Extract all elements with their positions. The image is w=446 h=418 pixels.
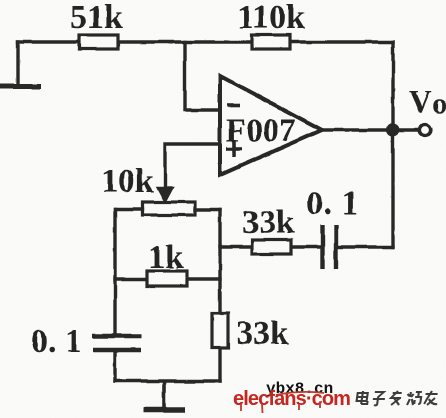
resistor R5 33k (vertical) [212, 313, 289, 352]
logo drip marks [241, 392, 324, 413]
resistor R1 51k [70, 0, 123, 49]
wire left rail lower [113, 351, 116, 381]
potentiometer RP 10k [101, 163, 195, 215]
wire pot right [195, 208, 220, 211]
wire pot left [115, 207, 143, 210]
wire 33k row [220, 245, 321, 248]
capacitor C1 0.1 (series) [306, 185, 359, 269]
op-amp U1 F007 [220, 76, 322, 175]
ground G2 [143, 381, 185, 410]
wire top horizontal [18, 40, 393, 43]
wire right rail mid [218, 210, 221, 313]
wire inverting input [185, 42, 219, 110]
wire right rail [391, 42, 394, 247]
wire right rail low [218, 348, 221, 381]
capacitor C2 0.1 (shunt) [31, 323, 141, 360]
wire cap to rail [337, 245, 393, 248]
wire output [322, 128, 419, 131]
node output junction [387, 124, 400, 137]
watermark chinese 电子发烧友 [356, 391, 439, 405]
resistor R3 33k (series) [242, 204, 295, 254]
wire 1k row [115, 277, 220, 280]
wire noninverting input [165, 144, 219, 188]
resistor R2 110k [237, 0, 305, 49]
terminal Vo [420, 125, 431, 136]
wire bottom [115, 379, 220, 382]
ground G1 [0, 42, 38, 87]
resistor R4 1k [147, 239, 187, 286]
wire left rail upper [113, 209, 116, 334]
